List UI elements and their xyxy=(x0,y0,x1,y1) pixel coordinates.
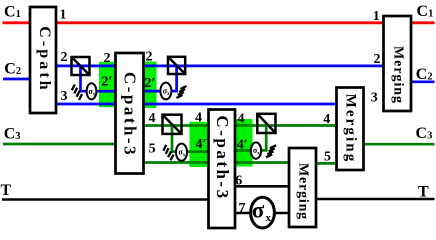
svg-text:σ: σ xyxy=(252,197,265,222)
svg-text:C-path-3: C-path-3 xyxy=(121,72,140,157)
svg-text:1: 1 xyxy=(60,8,67,23)
svg-text:6: 6 xyxy=(235,174,242,189)
svg-text:Merging: Merging xyxy=(391,46,406,104)
svg-text:4′: 4′ xyxy=(237,138,248,153)
svg-text:3: 3 xyxy=(371,91,378,106)
svg-text:T: T xyxy=(1,182,12,199)
svg-text:C-path: C-path xyxy=(36,26,53,93)
svg-text:Merging: Merging xyxy=(296,163,311,220)
svg-text:2′: 2′ xyxy=(102,75,113,90)
svg-text:2: 2 xyxy=(146,50,153,65)
svg-text:2′: 2′ xyxy=(145,76,156,91)
svg-text:C-path-3: C-path-3 xyxy=(213,115,232,200)
svg-text:4: 4 xyxy=(323,112,330,127)
svg-text:5: 5 xyxy=(149,142,156,157)
svg-text:Merging: Merging xyxy=(343,94,359,164)
svg-text:T: T xyxy=(418,183,429,200)
svg-text:7: 7 xyxy=(239,201,246,216)
svg-text:1: 1 xyxy=(373,9,380,24)
svg-text:2: 2 xyxy=(374,52,381,67)
svg-text:5: 5 xyxy=(324,149,331,164)
svg-text:x: x xyxy=(266,212,272,224)
svg-text:4: 4 xyxy=(149,111,156,126)
svg-text:4: 4 xyxy=(238,112,245,127)
svg-text:4: 4 xyxy=(195,111,202,126)
svg-text:2: 2 xyxy=(61,50,68,65)
svg-text:4′: 4′ xyxy=(196,137,207,152)
svg-text:2: 2 xyxy=(104,51,111,66)
svg-text:3: 3 xyxy=(61,89,68,104)
